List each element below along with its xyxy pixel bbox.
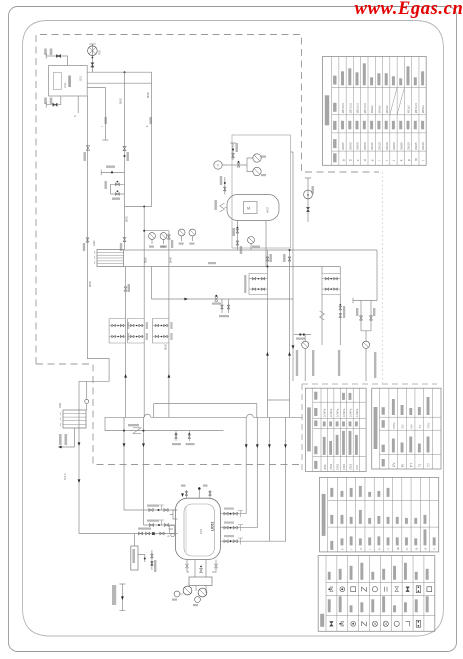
svg-text:VD: VD — [167, 536, 170, 538]
vaporizer E001 — [63, 410, 86, 428]
svg-text:DN25: DN25 — [166, 343, 168, 350]
economizer bypass loop — [111, 184, 125, 194]
unloading zigzag connector — [220, 203, 227, 212]
svg-text:d: d — [363, 159, 367, 161]
tank right valve rows — [220, 513, 246, 515]
vapor return line — [87, 87, 108, 140]
svg-text:PSV: PSV — [99, 50, 102, 55]
tank bottom liquid line — [79, 96, 109, 381]
buffer tank C01 — [175, 498, 220, 559]
svg-text:TSV: TSV — [427, 423, 431, 429]
E001 feed line — [78, 381, 80, 533]
svg-text:Ø57x3.5: Ø57x3.5 — [363, 103, 367, 114]
tank top nozzles — [186, 487, 210, 499]
svg-text:t: t — [392, 160, 396, 161]
svg-text:NV: NV — [409, 424, 413, 428]
regulator loop 1 — [249, 274, 268, 295]
water bath heater V002 — [227, 195, 279, 221]
dotted boundary right edge — [382, 172, 384, 383]
table T4 instrument signal notes — [320, 477, 439, 552]
svg-text:1.0MPa: 1.0MPa — [324, 408, 327, 417]
feed to regulator row — [79, 533, 178, 535]
svg-text:1.0MPa: 1.0MPa — [337, 408, 340, 417]
pressure regulator FG box — [133, 534, 135, 547]
dashed station boundary — [36, 35, 379, 365]
svg-text:I-: I- — [368, 548, 372, 550]
top right branch down x151.6 — [151, 72, 153, 206]
svg-text:TI: TI — [217, 163, 220, 167]
svg-text:a: a — [341, 159, 345, 161]
riser x125.6 down to manifold — [125, 267, 127, 418]
svg-text:C-: C- — [359, 547, 363, 550]
small vent circle VD — [171, 533, 175, 537]
svg-text:1.2MPa: 1.2MPa — [356, 408, 359, 417]
LNG storage tank J001 — [49, 66, 88, 97]
svg-text:www.Egas.cn: www.Egas.cn — [355, 0, 463, 19]
svg-text:PI: PI — [401, 464, 405, 467]
odorizer dosing valves — [176, 431, 189, 441]
svg-text:b: b — [349, 159, 353, 161]
svg-text:DN15: DN15 — [370, 142, 374, 150]
regulator double runs — [109, 319, 126, 344]
svg-text:Z-: Z- — [405, 547, 409, 550]
valves on heater drop — [236, 229, 239, 233]
left instrument column — [224, 177, 226, 195]
svg-text:V002: V002 — [329, 463, 333, 470]
TI gauge and PI gauges — [214, 161, 222, 169]
svg-text:T-: T- — [387, 547, 391, 549]
svg-text:C301: C301 — [342, 463, 346, 470]
table T2 equipment list — [305, 388, 366, 471]
valves on risers — [123, 238, 126, 242]
drain stub under tank — [77, 96, 79, 113]
table T5 legend — [318, 556, 435, 632]
regulated gas line y299 — [151, 267, 293, 300]
odorizer break — [131, 430, 144, 432]
svg-text:C01: C01 — [355, 465, 359, 470]
svg-text:TT: TT — [427, 463, 431, 467]
svg-text:P-: P- — [377, 547, 381, 550]
svg-text:Ø12x2: Ø12x2 — [407, 105, 411, 113]
EAG collection branch — [353, 250, 377, 303]
svg-text:F-: F- — [341, 547, 345, 550]
table T3 valve and instrument codes — [372, 388, 441, 469]
tank top-left vent stub — [46, 53, 67, 65]
svg-text:1.0MPa: 1.0MPa — [343, 408, 346, 417]
svg-text:TV: TV — [418, 425, 422, 429]
svg-text:DN10: DN10 — [378, 142, 382, 150]
svg-text:DN65: DN65 — [341, 142, 345, 150]
svg-text:G-: G- — [424, 547, 428, 550]
cross link y206.5 — [125, 206, 152, 208]
pressure gauge pair 1 — [149, 233, 156, 240]
vent stack x308 — [305, 178, 311, 222]
svg-text:DN25: DN25 — [90, 280, 92, 287]
main gas header with hop-overs — [105, 416, 303, 418]
svg-text:e: e — [370, 159, 374, 161]
liquid drop with valves — [339, 295, 341, 346]
svg-text:E001: E001 — [59, 402, 62, 408]
svg-text:CV: CV — [392, 462, 396, 467]
svg-text:J001: J001 — [80, 75, 83, 81]
to hot water system stub — [119, 584, 125, 611]
drop valves y308 — [222, 299, 229, 313]
svg-text:DN50: DN50 — [127, 215, 129, 222]
svg-text:LNG: LNG — [63, 83, 67, 88]
svg-text:W-: W- — [396, 546, 400, 549]
svg-text:Ø18x2: Ø18x2 — [370, 105, 374, 113]
svg-text:DN65: DN65 — [414, 142, 418, 150]
svg-text:M: M — [247, 206, 250, 211]
svg-text:DN40: DN40 — [148, 91, 150, 98]
valve on liquid line — [86, 238, 89, 242]
svg-text:Ø57x3.5: Ø57x3.5 — [341, 103, 345, 114]
svg-text:DN50: DN50 — [121, 97, 123, 104]
svg-text:PT: PT — [410, 463, 414, 467]
svg-text:DN80: DN80 — [399, 142, 403, 150]
pumps N1 N2 — [183, 586, 192, 595]
valve on x88 line — [86, 146, 89, 150]
valve on x124.5 line — [123, 146, 126, 150]
svg-text:Ø57x3.5: Ø57x3.5 — [348, 103, 352, 114]
riser x144.2 — [143, 207, 145, 418]
table T1 pipe nozzle list — [323, 57, 427, 166]
E001 outlet to tank note — [60, 428, 75, 447]
PSV riser on header — [250, 244, 252, 251]
vapour balance line — [87, 82, 151, 84]
svg-text:J001: J001 — [323, 464, 327, 470]
PSV stack on tank top line — [89, 44, 95, 72]
svg-text:k: k — [400, 159, 404, 161]
svg-text:Ø14x2: Ø14x2 — [385, 105, 389, 113]
liquid main vertical x124.5 — [124, 72, 126, 250]
BOG heater enclosure — [232, 135, 291, 248]
BOG unloading drop — [321, 295, 323, 346]
svg-text:m: m — [414, 158, 418, 161]
svg-text:DN10: DN10 — [385, 142, 389, 150]
svg-text:DN50: DN50 — [392, 142, 396, 150]
vent stub with tee — [101, 170, 124, 176]
odorized gas line — [105, 417, 224, 430]
svg-text:D-: D- — [414, 547, 418, 550]
svg-text:1.0MPa: 1.0MPa — [350, 408, 353, 417]
svg-text:Ø57x3.5: Ø57x3.5 — [414, 103, 418, 114]
EAG vent main x293 — [291, 152, 294, 381]
regulator loop 2 — [322, 267, 340, 274]
tank bottom pump assembly — [195, 560, 206, 578]
link y230.7 and riser x168.9 — [144, 231, 169, 418]
main header lines from vaporizer — [124, 249, 378, 251]
svg-text:Y-: Y- — [433, 547, 437, 550]
svg-text:p: p — [407, 159, 411, 161]
valve column above heater — [230, 143, 236, 160]
svg-text:DN10: DN10 — [407, 142, 411, 150]
bypass bridge over header — [154, 404, 257, 418]
E001 riser — [86, 381, 88, 410]
svg-text:Ø51x3.5: Ø51x3.5 — [356, 103, 360, 114]
svg-text:I-: I- — [350, 548, 354, 550]
svg-text:DN50: DN50 — [146, 256, 148, 263]
gas phase main from tank — [87, 71, 151, 73]
pressure gauge pair 2 — [178, 229, 185, 236]
svg-text:1.0MPa: 1.0MPa — [330, 408, 333, 417]
valve on E002 outlet — [124, 287, 127, 291]
drops below header to buffer tank — [124, 417, 144, 525]
inter-header connectors down to manifold — [267, 250, 269, 417]
SV line with PI — [294, 334, 311, 336]
vaporizer E002 — [97, 250, 124, 267]
svg-text:DN40: DN40 — [421, 142, 425, 150]
rung between EAG connectors — [268, 399, 290, 401]
level gauge taps — [169, 510, 178, 529]
svg-text:LIC01: LIC01 — [211, 522, 215, 531]
svg-text:c: c — [356, 159, 360, 161]
svg-text:S302: S302 — [349, 463, 353, 470]
svg-text:DN40: DN40 — [170, 256, 172, 263]
svg-text:Ø45x3: Ø45x3 — [421, 105, 425, 113]
tank bottom-left drain stub — [46, 96, 61, 108]
tank left inlet rows — [124, 509, 175, 511]
svg-text:Ø14x2: Ø14x2 — [378, 105, 382, 113]
svg-text:DN60: DN60 — [348, 142, 352, 150]
svg-text:TI: TI — [418, 464, 422, 467]
svg-text:E002: E002 — [93, 240, 96, 246]
dashed skid box around tables — [302, 384, 437, 471]
svg-text:C01: C01 — [199, 528, 203, 534]
svg-text:PSV: PSV — [392, 422, 396, 428]
svg-text:DN50: DN50 — [363, 142, 367, 150]
svg-text:E002: E002 — [336, 463, 340, 470]
svg-text:T01-5: T01-5 — [64, 473, 67, 480]
heater outlet drops — [236, 221, 238, 251]
svg-text:V002: V002 — [267, 207, 270, 213]
svg-text:DN50: DN50 — [356, 142, 360, 150]
svg-text:SV: SV — [401, 424, 405, 428]
